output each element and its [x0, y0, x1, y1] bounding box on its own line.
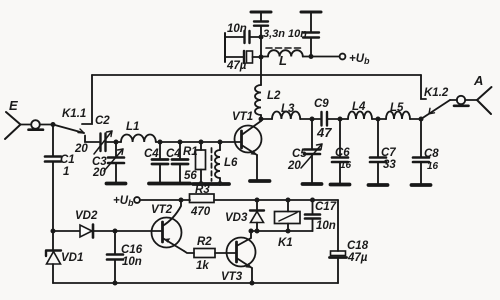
long wire K1.1 to K1.2	[92, 74, 421, 76]
diode VD2	[53, 225, 115, 238]
svg-text:K1.2: K1.2	[424, 87, 449, 99]
node R1	[199, 140, 204, 145]
svg-text:L1: L1	[126, 121, 139, 133]
+Ub terminal bottom	[134, 197, 190, 203]
wire to connector A	[450, 99, 457, 101]
inductor L4	[348, 112, 372, 119]
K1.2 blade	[421, 100, 450, 119]
collector vertical / L2 node	[260, 119, 262, 121]
svg-text:C6: C6	[335, 147, 350, 159]
node C4a	[158, 140, 163, 145]
svg-text:L5: L5	[390, 102, 404, 114]
wire connector to antenna A	[465, 99, 477, 101]
ground bar C8	[412, 183, 431, 187]
svg-text:L: L	[279, 53, 287, 68]
K1.1 upper contact from long wire	[82, 75, 92, 124]
resistor R1	[196, 142, 206, 182]
svg-text:47µ: 47µ	[226, 60, 247, 72]
svg-text:47: 47	[316, 125, 332, 140]
node K1.2/C8	[419, 117, 424, 122]
svg-text:470: 470	[190, 206, 211, 218]
svg-text:C18: C18	[347, 240, 369, 252]
transistor VT2	[152, 200, 195, 253]
inductor L2	[255, 26, 261, 119]
ground bar VT1 emitter	[250, 179, 270, 183]
svg-text:R3: R3	[195, 184, 210, 196]
wire C16 node to VT2 base	[115, 230, 162, 232]
svg-text:VD1: VD1	[61, 252, 83, 264]
inductor L3	[272, 112, 300, 119]
C1 from node down	[45, 125, 61, 232]
capacitor 3.3n plates	[254, 20, 268, 22]
svg-text:VT2: VT2	[151, 204, 173, 216]
svg-text:C16: C16	[121, 244, 143, 256]
node C5	[310, 117, 315, 122]
svg-text:C8: C8	[424, 148, 439, 160]
svg-text:20: 20	[92, 167, 106, 179]
ground bar C6	[331, 183, 350, 187]
zener VD1	[46, 231, 61, 283]
svg-text:VT1: VT1	[232, 111, 253, 123]
capacitor C4a	[152, 142, 168, 182]
connector XW1 (E side)	[29, 120, 44, 130]
antenna A symbol	[477, 87, 492, 114]
svg-text:+Ub: +Ub	[349, 53, 370, 66]
resistor R2	[194, 249, 236, 258]
svg-text:C4: C4	[144, 148, 159, 160]
svg-text:VD3: VD3	[225, 212, 248, 224]
node C4b	[178, 140, 183, 145]
ground bar C3	[107, 182, 126, 186]
svg-text:10n: 10n	[316, 220, 336, 232]
svg-text:16: 16	[340, 160, 352, 171]
svg-text:16: 16	[427, 161, 439, 172]
svg-text:VT3: VT3	[221, 271, 243, 283]
svg-text:K1: K1	[278, 237, 293, 249]
svg-text:10n: 10n	[288, 28, 307, 40]
svg-text:C1: C1	[60, 154, 75, 166]
svg-text:VD2: VD2	[75, 210, 98, 222]
antenna E symbol	[5, 112, 31, 139]
svg-text:L6: L6	[224, 157, 238, 169]
svg-text:20: 20	[287, 160, 301, 172]
left bus bar for 10n/47u	[224, 33, 226, 62]
bottom rail	[53, 282, 338, 284]
wire L1 to C4 node	[156, 141, 160, 143]
svg-text:33: 33	[383, 159, 396, 171]
ground bar C7	[369, 183, 388, 187]
svg-text:+Ub: +Ub	[113, 195, 134, 208]
node at C1 top	[51, 122, 56, 127]
capacitor C16	[107, 231, 123, 283]
capacitor 10n top-left	[225, 31, 261, 43]
chassis bar top left	[260, 13, 262, 22]
node L6	[218, 140, 223, 145]
resistor R3	[190, 194, 339, 203]
node VD2/VD1	[51, 229, 56, 234]
transistor VT1	[235, 121, 262, 179]
svg-text:10n: 10n	[122, 256, 142, 268]
capacitor C18 electrolytic	[330, 200, 347, 283]
capacitor C2 variable	[94, 131, 112, 154]
ground bar C4a	[149, 182, 190, 186]
inductor L choke	[261, 48, 311, 57]
diode VD3	[250, 200, 264, 231]
svg-text:56: 56	[184, 170, 197, 182]
svg-text:R2: R2	[197, 236, 212, 248]
node C16 top	[113, 229, 118, 234]
svg-text:3,3n: 3,3n	[263, 28, 285, 40]
capacitor C8	[413, 119, 429, 184]
node C6	[338, 117, 343, 122]
capacitor 10n top-right	[303, 13, 319, 57]
svg-text:1k: 1k	[196, 260, 209, 272]
svg-text:L4: L4	[352, 101, 366, 113]
transistor VT3	[227, 231, 256, 283]
svg-text:K1.1: K1.1	[62, 108, 86, 120]
svg-text:10n: 10n	[227, 23, 247, 35]
connector XW2 (A side)	[454, 96, 469, 106]
ground bar R1/L6	[193, 182, 229, 186]
K1.2 upper contact	[421, 75, 426, 99]
wire VT3 collector rail	[251, 230, 313, 232]
inductor L1	[121, 134, 156, 142]
svg-text:L3: L3	[281, 103, 295, 115]
svg-text:C2: C2	[95, 115, 110, 127]
ground bar C5	[303, 182, 322, 186]
chassis bar top right	[301, 11, 321, 14]
svg-text:1: 1	[63, 166, 69, 178]
inductor L6 with core	[212, 142, 221, 182]
node C3/L1	[114, 140, 119, 145]
rail C4a..VT1 base	[160, 141, 240, 143]
svg-text:C9: C9	[314, 98, 329, 110]
svg-text:E: E	[9, 98, 18, 113]
capacitor C4b	[172, 142, 188, 182]
svg-text:L2: L2	[267, 90, 281, 102]
capacitor C3 variable	[104, 142, 124, 182]
capacitor C5 variable	[301, 119, 322, 183]
capacitor C17	[305, 200, 320, 231]
wire C2 to node	[106, 141, 121, 143]
svg-text:C4: C4	[166, 148, 181, 160]
svg-text:20: 20	[74, 143, 88, 155]
inductor L5	[386, 112, 410, 119]
switch K1.1 blade	[53, 125, 84, 134]
svg-text:C5: C5	[292, 148, 307, 160]
node C7	[376, 117, 381, 122]
svg-text:R1: R1	[183, 146, 198, 158]
wire connector to node	[40, 124, 53, 126]
wire blade tip to C2	[85, 136, 99, 143]
svg-text:C17: C17	[315, 201, 337, 213]
+Ub terminal top	[311, 54, 345, 60]
capacitor C6	[332, 119, 348, 183]
mid rail: collector node to L3	[261, 118, 272, 120]
capacitor C7	[370, 119, 386, 184]
relay K1	[275, 200, 301, 231]
svg-text:A: A	[473, 73, 483, 88]
svg-text:47µ: 47µ	[347, 252, 368, 264]
svg-text:C7: C7	[381, 147, 396, 159]
capacitor C9 series	[322, 112, 349, 126]
capacitor 47u electrolytic	[225, 51, 261, 63]
